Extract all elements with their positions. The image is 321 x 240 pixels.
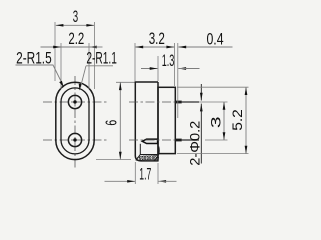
pin diameter arrow down	[200, 93, 203, 101]
dim 3.2 extension right	[174, 43, 176, 86]
pin diameter leader upper	[200, 84, 202, 101]
dim 6 extension top	[116, 81, 135, 83]
side view flange	[135, 82, 158, 161]
label 2-R1.1 leader	[80, 66, 86, 88]
svg-text:0.4: 0.4	[206, 31, 223, 49]
dim 6 arrow top	[119, 82, 122, 90]
svg-text:6: 6	[103, 120, 120, 126]
dim 3 vert arrow top	[223, 102, 226, 110]
dim 3 vert arrow bottom	[223, 132, 226, 140]
dim 2.2 extension left	[60, 43, 62, 89]
pin diameter arrow up	[200, 104, 203, 112]
label 2-R1.1 underline	[86, 65, 113, 67]
side view flange right edge	[157, 82, 159, 161]
dim 1.3 line right tail	[178, 68, 199, 70]
dim 5.2 arrow bottom	[245, 146, 248, 154]
extension pin line	[177, 43, 179, 118]
dim 3 extension left	[54, 22, 56, 81]
dim 1.7 line right tail	[158, 180, 176, 182]
dim 2.2 line left tail	[41, 46, 62, 48]
svg-text:3.2: 3.2	[149, 30, 165, 48]
dim 0.4 arrow	[178, 46, 186, 49]
dim 3 vert extension top	[194, 101, 228, 103]
dim 3 extension right	[94, 22, 96, 89]
dim 0.4 line	[178, 46, 232, 48]
svg-text:1.3: 1.3	[162, 52, 175, 70]
dim 1.7 extension left	[134, 162, 136, 184]
dim 2.2 line right tail	[89, 46, 103, 48]
centerline bottom hole horizontal	[43, 139, 108, 141]
dim 3 arrow right	[86, 24, 94, 27]
dim 1.3 line left tail	[141, 68, 158, 70]
dim 3 vert line	[223, 102, 225, 140]
dim 6 line	[119, 82, 121, 159]
top hole center dot	[73, 100, 76, 103]
dim 5.2 line	[245, 87, 247, 153]
dim 1.3 extension left	[157, 56, 159, 81]
terminal of pin 2 (sectioned)	[142, 139, 157, 143]
dim 3.2 line	[135, 46, 174, 48]
dim 1.3 arrow left	[150, 67, 158, 70]
dim 3.2 arrow left	[135, 46, 143, 49]
pin 2 wire	[182, 139, 199, 141]
svg-text:2-Φ0.2: 2-Φ0.2	[187, 121, 202, 166]
section scallop texture	[137, 156, 159, 161]
label 2-R1.5 underline	[16, 65, 63, 84]
dim 3.2 extension left	[134, 43, 136, 81]
pin 1 base	[175, 101, 181, 104]
top hole circle	[68, 95, 81, 108]
bottom hole center dot	[73, 138, 76, 141]
svg-text:3: 3	[208, 116, 224, 128]
pin 2 base	[175, 139, 181, 142]
svg-text:2-R1.1: 2-R1.1	[86, 50, 117, 68]
dim 5.2 extension top	[177, 86, 249, 88]
dim 2.2 line middle	[61, 46, 89, 48]
side view centerline top pin	[129, 101, 191, 103]
dim 5.2 arrow top	[245, 87, 248, 95]
label 2-R1.5 leader arrow	[59, 81, 64, 88]
centerline top hole horizontal	[43, 101, 108, 103]
inner stadium	[61, 88, 89, 154]
side view centerline bottom pin	[129, 139, 191, 141]
dim 3.2 arrow right	[166, 46, 174, 49]
dim 1.7 extension right	[157, 163, 159, 184]
dim 1.7 arrow right	[158, 180, 166, 183]
dim 6 extension bottom	[96, 159, 131, 161]
side view body	[158, 87, 175, 153]
section band top edge	[136, 155, 159, 161]
bottom hole circle	[68, 133, 81, 146]
pin diameter leader lower	[200, 104, 202, 164]
dim 3 line	[56, 24, 94, 26]
flange bottom S-curve	[154, 147, 159, 161]
dim 1.7 arrow left	[127, 180, 135, 183]
dim 6 arrow bottom	[119, 152, 122, 160]
label 2-R1.1 leader arrow	[79, 84, 82, 91]
svg-text:5.2: 5.2	[230, 109, 245, 131]
dim 3 arrow left	[56, 24, 64, 27]
dim 5.2 extension bottom	[177, 153, 249, 155]
section break line	[139, 144, 141, 155]
dim 3 vert extension bottom	[205, 139, 228, 141]
centerline vertical left view	[74, 76, 76, 169]
svg-text:2.2: 2.2	[68, 30, 84, 48]
dim 2.2 extension right	[88, 43, 90, 89]
outer stadium body (front view)	[56, 82, 94, 159]
pin 1 wire	[182, 101, 199, 103]
svg-text:1.7: 1.7	[139, 166, 151, 184]
svg-text:3: 3	[73, 8, 78, 26]
dim 2.2 arrow left	[53, 46, 61, 49]
dim 2.2 arrow right	[89, 46, 97, 49]
dim 1.7 line left tail	[105, 180, 136, 182]
dim 1.3 arrow right	[178, 67, 186, 70]
